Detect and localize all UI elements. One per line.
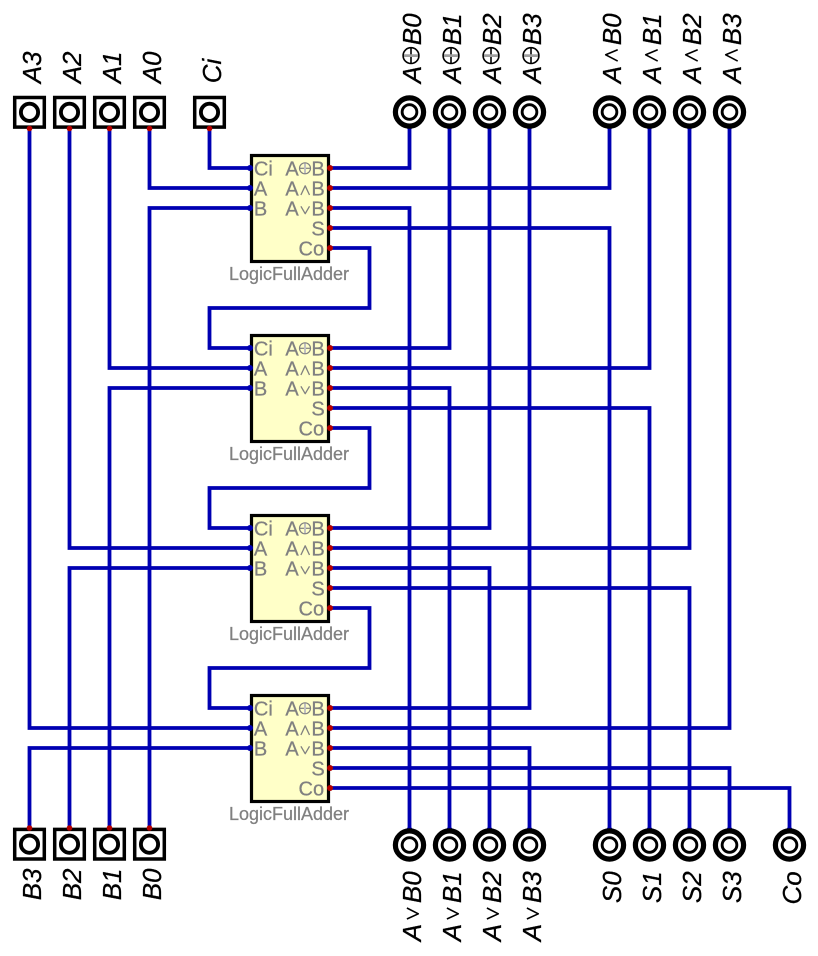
input pin Ci <box>195 98 225 132</box>
output pin A∨B2 <box>475 827 503 859</box>
svg-text:B: B <box>254 378 267 400</box>
node label A⊕B0 <box>397 13 427 85</box>
svg-text:B: B <box>254 558 267 580</box>
svg-text:B: B <box>311 198 324 220</box>
svg-text:B3: B3 <box>517 871 547 903</box>
svg-text:A: A <box>397 66 427 85</box>
node label S0 <box>597 871 627 903</box>
input pin A0 <box>135 98 165 132</box>
svg-text:A: A <box>254 178 268 200</box>
svg-text:B: B <box>311 338 324 360</box>
wire A1 to U2.A <box>110 129 251 369</box>
svg-text:B1: B1 <box>97 868 127 900</box>
wire U2.AxorB to output A⊕B1 <box>330 127 450 349</box>
svg-text:A: A <box>397 924 427 943</box>
node label A∨B3 <box>517 871 547 943</box>
output pin S3 <box>715 827 743 859</box>
node label B2 <box>57 868 87 900</box>
wire U3.S to output S2 <box>330 588 690 830</box>
svg-text:LogicFullAdder: LogicFullAdder <box>229 624 349 644</box>
svg-text:A: A <box>677 66 707 85</box>
svg-text:B1: B1 <box>437 871 467 903</box>
node label A∧B1 <box>637 13 667 85</box>
node label A1 <box>97 51 127 85</box>
op-amp U1 LogicFullAdder box <box>229 156 349 284</box>
wire Ci input to U1.Ci <box>210 129 251 169</box>
input pin B1 <box>95 825 125 859</box>
svg-text:LogicFullAdder: LogicFullAdder <box>229 264 349 284</box>
node label A⊕B1 <box>437 13 467 85</box>
svg-text:S: S <box>311 398 324 420</box>
svg-text:A: A <box>477 66 507 85</box>
node label S1 <box>637 871 667 903</box>
op-amp U2 LogicFullAdder box <box>229 336 349 464</box>
svg-text:B2: B2 <box>477 13 507 45</box>
input pin B2 <box>55 825 85 859</box>
node label A⊕B3 <box>517 13 547 85</box>
svg-text:B: B <box>311 518 324 540</box>
node label A⊕B2 <box>477 13 507 85</box>
node label B1 <box>97 868 127 900</box>
svg-text:Co: Co <box>299 238 325 260</box>
node label A3 <box>17 51 47 85</box>
output pin A∨B1 <box>435 827 463 859</box>
svg-text:Ci: Ci <box>254 698 273 720</box>
svg-text:B: B <box>311 178 324 200</box>
svg-text:A: A <box>477 924 507 943</box>
svg-text:B: B <box>254 198 267 220</box>
svg-text:A: A <box>285 538 299 560</box>
wire B1 to U2.B <box>110 388 251 828</box>
node label A∧B0 <box>597 13 627 85</box>
svg-text:A2: A2 <box>57 51 87 85</box>
node label S3 <box>717 871 747 903</box>
svg-text:A: A <box>285 738 299 760</box>
output pin A⊕B2 <box>475 98 503 130</box>
svg-text:A: A <box>285 358 299 380</box>
svg-text:B1: B1 <box>437 13 467 45</box>
wire U3.Co to U4.Ci <box>210 608 370 708</box>
output pin A⊕B1 <box>435 98 463 130</box>
wire U4.AandB to output A∧B3 <box>330 127 730 729</box>
svg-text:A: A <box>437 924 467 943</box>
output pin A∧B2 <box>675 98 703 130</box>
svg-text:B: B <box>311 358 324 380</box>
wire U1.S to output S0 <box>330 228 610 830</box>
input pin A2 <box>55 98 85 132</box>
svg-text:S0: S0 <box>597 871 627 903</box>
svg-text:Co: Co <box>777 871 807 904</box>
wire U2.S to output S1 <box>330 408 650 830</box>
svg-text:B2: B2 <box>677 13 707 45</box>
op-amp U3 LogicFullAdder box <box>229 516 349 644</box>
svg-text:Co: Co <box>299 778 325 800</box>
wire B0 to U1.B <box>150 208 251 828</box>
wire U1.AorB to output A∨B0 <box>330 208 410 830</box>
wire U4.AxorB to output A⊕B3 <box>330 127 530 709</box>
node label B3 <box>17 868 47 900</box>
output pin A∧B3 <box>715 98 743 130</box>
output pin A∧B1 <box>635 98 663 130</box>
svg-text:B0: B0 <box>397 13 427 45</box>
svg-text:B: B <box>311 538 324 560</box>
svg-text:A: A <box>285 698 299 720</box>
wire U1.Co to U2.Ci <box>210 248 370 348</box>
output pin S1 <box>635 827 663 859</box>
node label A∨B2 <box>477 871 507 943</box>
svg-text:A: A <box>285 378 299 400</box>
node label S2 <box>677 871 707 903</box>
node label Co <box>777 871 807 904</box>
svg-text:A0: A0 <box>137 51 167 85</box>
svg-text:A: A <box>437 66 467 85</box>
svg-text:A: A <box>637 66 667 85</box>
svg-text:B0: B0 <box>137 868 167 900</box>
svg-text:A: A <box>254 718 268 740</box>
node label B0 <box>137 868 167 900</box>
svg-text:S3: S3 <box>717 871 747 903</box>
svg-text:B1: B1 <box>637 13 667 45</box>
node label A0 <box>137 51 167 85</box>
svg-text:B: B <box>311 698 324 720</box>
svg-text:B3: B3 <box>717 13 747 45</box>
wire A0 to U1.A <box>150 129 251 189</box>
svg-text:A: A <box>285 158 299 180</box>
node label A∨B0 <box>397 871 427 943</box>
svg-text:LogicFullAdder: LogicFullAdder <box>229 804 349 824</box>
svg-text:S: S <box>311 758 324 780</box>
svg-text:B: B <box>311 738 324 760</box>
svg-text:A: A <box>517 66 547 85</box>
output pin A⊕B0 <box>395 98 423 130</box>
svg-text:B: B <box>311 378 324 400</box>
svg-text:Ci: Ci <box>254 338 273 360</box>
output pin A∨B3 <box>515 827 543 859</box>
svg-text:B2: B2 <box>57 868 87 900</box>
svg-text:Ci: Ci <box>254 158 273 180</box>
output pin S0 <box>595 827 623 859</box>
svg-text:B3: B3 <box>517 13 547 45</box>
svg-text:A: A <box>254 358 268 380</box>
svg-text:B: B <box>311 158 324 180</box>
wire A3 to U4.A <box>30 129 251 729</box>
svg-text:A: A <box>285 718 299 740</box>
svg-text:Co: Co <box>299 598 325 620</box>
svg-text:A3: A3 <box>17 51 47 85</box>
output pin A∨B0 <box>395 827 423 859</box>
svg-text:A: A <box>717 66 747 85</box>
wire U4.AorB to output A∨B3 <box>330 748 530 830</box>
wire B3 to U4.B <box>30 748 251 828</box>
wire U3.AandB to output A∧B2 <box>330 127 690 549</box>
svg-text:B0: B0 <box>397 871 427 903</box>
wire U1.AxorB to output A⊕B0 <box>330 127 410 169</box>
output pin S2 <box>675 827 703 859</box>
wire U1.AandB to output A∧B0 <box>330 127 610 189</box>
input pin A3 <box>15 98 45 132</box>
svg-text:Ci: Ci <box>254 518 273 540</box>
svg-text:A: A <box>285 558 299 580</box>
svg-text:A: A <box>517 924 547 943</box>
wire A2 to U3.A <box>70 129 251 549</box>
node label A∧B3 <box>717 13 747 85</box>
wire U3.AorB to output A∨B2 <box>330 568 490 830</box>
svg-text:B: B <box>311 718 324 740</box>
svg-text:S1: S1 <box>637 871 667 903</box>
wire U2.Co to U3.Ci <box>210 428 370 528</box>
svg-text:A: A <box>285 338 299 360</box>
wire U2.AandB to output A∧B1 <box>330 127 650 369</box>
svg-text:LogicFullAdder: LogicFullAdder <box>229 444 349 464</box>
input pin A1 <box>95 98 125 132</box>
svg-text:A1: A1 <box>97 51 127 85</box>
svg-text:A: A <box>254 538 268 560</box>
svg-text:A: A <box>285 518 299 540</box>
svg-text:Ci: Ci <box>197 58 227 84</box>
svg-text:B2: B2 <box>477 871 507 903</box>
svg-text:B: B <box>311 558 324 580</box>
svg-text:B: B <box>254 738 267 760</box>
node label A2 <box>57 51 87 85</box>
wire U2.AorB to output A∨B1 <box>330 388 450 830</box>
svg-text:A: A <box>597 66 627 85</box>
node label A∨B1 <box>437 871 467 943</box>
svg-text:S: S <box>311 218 324 240</box>
wire U4.Co to output Co <box>330 788 790 830</box>
node label A∧B2 <box>677 13 707 85</box>
output pin Co <box>775 827 803 859</box>
output pin A∧B0 <box>595 98 623 130</box>
svg-text:Co: Co <box>299 418 325 440</box>
svg-text:A: A <box>285 178 299 200</box>
svg-text:S2: S2 <box>677 871 707 903</box>
input pin B3 <box>15 825 45 859</box>
wire B2 to U3.B <box>70 568 251 828</box>
svg-text:S: S <box>311 578 324 600</box>
svg-text:B0: B0 <box>597 13 627 45</box>
node label Ci <box>197 58 227 84</box>
svg-text:B3: B3 <box>17 868 47 900</box>
wire U4.S to output S3 <box>330 768 730 830</box>
output pin A⊕B3 <box>515 98 543 130</box>
op-amp U4 LogicFullAdder box <box>229 696 349 824</box>
wire U3.AxorB to output A⊕B2 <box>330 127 490 529</box>
svg-text:A: A <box>285 198 299 220</box>
input pin B0 <box>135 825 165 859</box>
